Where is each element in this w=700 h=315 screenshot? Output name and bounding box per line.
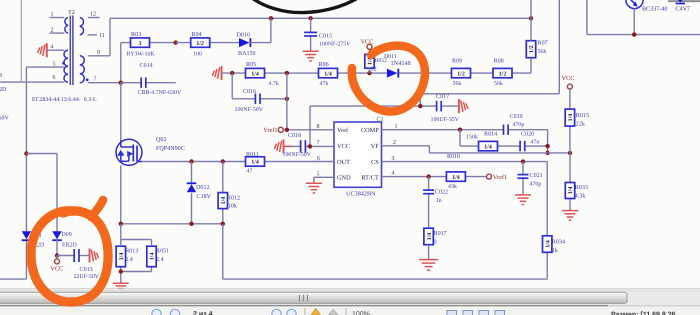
wire pin5 xyxy=(26,66,64,68)
wire D012 column xyxy=(191,162,193,224)
svg-text:Размер: [11,69 8,26: Размер: [11,69 8,26 xyxy=(611,311,676,315)
svg-text:Vref: Vref xyxy=(337,127,349,134)
svg-text:R06: R06 xyxy=(319,61,329,68)
ground C015 xyxy=(303,51,319,61)
svg-text:1/4: 1/4 xyxy=(568,187,574,195)
svg-text:R011: R011 xyxy=(246,151,259,158)
svg-text:150k: 150k xyxy=(466,133,478,140)
svg-text:56k: 56k xyxy=(494,80,503,87)
resistor R09 xyxy=(452,57,471,86)
wire R012 column xyxy=(222,162,224,224)
svg-text:C18V: C18V xyxy=(197,193,212,200)
ground C021 xyxy=(515,195,531,205)
svg-text:Vref1: Vref1 xyxy=(493,174,507,181)
capacitor C021 xyxy=(518,172,543,188)
svg-text:FQP4N90C: FQP4N90C xyxy=(156,145,185,152)
svg-text:470p: 470p xyxy=(513,122,525,128)
wire D08 column xyxy=(0,67,26,279)
wire cut gray xyxy=(668,0,700,2)
svg-text:COMP: COMP xyxy=(361,127,379,134)
svg-text:1/4: 1/4 xyxy=(545,240,551,248)
resistor R012 xyxy=(218,193,240,210)
wire C013 row xyxy=(57,255,89,257)
svg-text:100UF-35V: 100UF-35V xyxy=(431,117,460,123)
svg-text:VF: VF xyxy=(371,143,380,150)
node C016-right xyxy=(285,97,289,101)
capacitor C014 xyxy=(138,62,182,96)
svg-text:1/4: 1/4 xyxy=(484,144,492,150)
ground pin5 xyxy=(306,183,322,193)
wire riser pin9 to top rail xyxy=(109,18,111,56)
wire VCC feed from top xyxy=(420,0,559,106)
pin 2 xyxy=(393,140,396,146)
svg-text:1N4148: 1N4148 xyxy=(391,60,411,67)
ground C017 (earth) xyxy=(459,99,468,113)
wire pin2 stub xyxy=(50,32,65,34)
svg-text:R09: R09 xyxy=(452,57,462,64)
wire pin12 stub xyxy=(88,17,100,19)
svg-text:CS: CS xyxy=(371,159,379,166)
svg-text:R014: R014 xyxy=(484,131,497,138)
svg-text:OUT: OUT xyxy=(337,159,350,166)
wire C014 row xyxy=(121,82,176,84)
pin 1 xyxy=(395,124,398,130)
diode C4V7 (cut) xyxy=(676,0,691,12)
wire pin4 row xyxy=(382,176,487,178)
wire R08 to R07 xyxy=(530,58,532,73)
svg-text:100NF-50V: 100NF-50V xyxy=(283,152,312,158)
svg-text:3: 3 xyxy=(139,41,142,47)
svg-text:EC2834-44:13:6:44- 0.3-L: EC2834-44:13:6:44- 0.3-L xyxy=(32,97,97,103)
label C1 xyxy=(377,117,384,123)
node rail-R012 xyxy=(221,222,225,226)
svg-text:R033: R033 xyxy=(575,184,588,191)
svg-text:7: 7 xyxy=(94,77,97,83)
svg-text:100%: 100% xyxy=(352,311,370,315)
svg-text:4.7k: 4.7k xyxy=(269,80,279,87)
wire top rail xyxy=(110,17,531,19)
capacitor C020 xyxy=(520,131,539,152)
power VCC (output) xyxy=(51,256,64,273)
svg-text:R013: R013 xyxy=(125,247,138,254)
svg-text:1/4: 1/4 xyxy=(568,114,574,122)
resistor R052 xyxy=(365,54,387,72)
svg-text:1/2: 1/2 xyxy=(529,45,535,53)
svg-text:7: 7 xyxy=(317,140,320,146)
node rail-R07 xyxy=(529,16,533,20)
wire C015 column xyxy=(310,18,312,51)
node mid-C016 xyxy=(230,71,234,75)
svg-text:50V: 50V xyxy=(0,115,10,121)
annotation orange circle (D011) xyxy=(352,46,425,112)
node pin7-VCC xyxy=(308,144,312,148)
resistor R051 xyxy=(147,246,169,267)
wire BC337 emitter xyxy=(633,9,635,35)
wire C016 branch xyxy=(232,73,287,99)
wire R04 row xyxy=(176,42,239,44)
pin 5 xyxy=(317,172,320,178)
label cut 50V xyxy=(0,115,10,121)
svg-text:CBB-4.7NF-630V: CBB-4.7NF-630V xyxy=(138,90,182,96)
svg-text:C018: C018 xyxy=(288,132,301,139)
svg-text:C019: C019 xyxy=(510,113,523,120)
svg-text:VCC: VCC xyxy=(562,75,575,82)
svg-text:2 из 4: 2 из 4 xyxy=(193,311,213,315)
resistor R015 xyxy=(565,109,589,128)
diode D08 xyxy=(22,231,45,248)
svg-text:0: 0 xyxy=(434,238,437,245)
svg-text:R07: R07 xyxy=(538,40,548,47)
svg-text:D012: D012 xyxy=(196,184,210,191)
wire R033 column xyxy=(569,153,571,210)
svg-text:1/4: 1/4 xyxy=(119,253,125,261)
svg-text:22UF-50V: 22UF-50V xyxy=(74,274,100,280)
wire R015 column xyxy=(569,89,571,153)
ground R033 xyxy=(562,211,578,221)
wire pin11 stub xyxy=(88,34,97,36)
resistor R017 xyxy=(424,228,447,245)
node VCC-C013 xyxy=(55,253,59,257)
svg-text:ER2D: ER2D xyxy=(62,243,77,249)
label Q02 xyxy=(156,136,185,152)
svg-text:BC337-40: BC337-40 xyxy=(642,5,667,12)
svg-text:R051: R051 xyxy=(156,247,169,254)
svg-text:1/4: 1/4 xyxy=(452,175,460,181)
svg-text:GND: GND xyxy=(337,175,351,182)
svg-text:100NF-50V: 100NF-50V xyxy=(235,107,264,113)
svg-text:4: 4 xyxy=(392,171,395,177)
svg-text:C016: C016 xyxy=(243,88,256,95)
node CS-C021 xyxy=(521,159,525,163)
wire sense drop xyxy=(222,224,224,279)
svg-text:47k: 47k xyxy=(320,80,329,87)
label cut 3 xyxy=(0,73,2,79)
ground pin4 (earth) xyxy=(38,43,47,57)
wire source xyxy=(120,165,122,224)
capacitor C019 xyxy=(504,113,525,135)
svg-text:R016: R016 xyxy=(447,153,460,160)
resistor R05 xyxy=(246,61,279,87)
svg-text:56k: 56k xyxy=(538,48,547,55)
wire D09 to VCC xyxy=(56,240,58,256)
resistor R07 xyxy=(526,40,547,58)
svg-text:1/4: 1/4 xyxy=(150,253,156,261)
node VF join xyxy=(545,151,549,155)
svg-text:6: 6 xyxy=(53,75,56,81)
resistor R034 xyxy=(543,236,566,254)
pin 7 xyxy=(317,140,320,146)
svg-text:43k: 43k xyxy=(448,183,457,190)
node rail-C015 xyxy=(308,16,312,20)
wire R07 top xyxy=(530,18,532,40)
pin 4 xyxy=(392,171,395,177)
node divider tap xyxy=(568,151,572,155)
wire pin7 row xyxy=(292,145,335,147)
wire D010 to rail xyxy=(250,18,271,42)
transistor Q02 xyxy=(116,139,142,165)
resistor R03 xyxy=(127,31,156,58)
capacitor C018 xyxy=(283,132,312,158)
node R013 bottom xyxy=(119,269,123,273)
node source xyxy=(119,222,123,226)
pin 6 xyxy=(317,156,320,162)
capacitor C016 xyxy=(235,88,264,113)
node Vref1 (RT/CT) xyxy=(487,174,508,181)
svg-text:56k: 56k xyxy=(453,80,462,87)
node rail-D012 xyxy=(189,222,193,226)
svg-text:C1: C1 xyxy=(377,117,384,123)
svg-text:R017: R017 xyxy=(434,230,447,237)
wire pin6 xyxy=(0,81,64,83)
wire pin1 row xyxy=(382,129,548,131)
resistor R033 xyxy=(565,183,588,200)
svg-text:C4V7: C4V7 xyxy=(676,5,691,12)
svg-text:2.4: 2.4 xyxy=(125,256,133,263)
resistor R013 xyxy=(116,246,138,267)
svg-text:1/2: 1/2 xyxy=(196,41,204,47)
wire R013 net xyxy=(121,224,152,283)
svg-text:C014: C014 xyxy=(140,62,153,69)
resistor R011 xyxy=(246,151,265,175)
svg-text:1k: 1k xyxy=(552,247,559,254)
node C017 xyxy=(418,104,422,108)
wire C018 red lead xyxy=(284,145,292,147)
wire R03 left riser xyxy=(120,43,122,83)
wire pin8 xyxy=(284,129,335,131)
svg-text:47n: 47n xyxy=(531,140,540,146)
svg-text:10k: 10k xyxy=(228,203,238,210)
node mid-Vref-riser xyxy=(285,71,289,75)
wire source rail xyxy=(121,223,223,225)
wire R03 row xyxy=(121,42,176,44)
node Vref-junction xyxy=(285,128,289,132)
resistor R08 xyxy=(493,57,512,86)
svg-text:R052: R052 xyxy=(375,58,387,64)
svg-text:R04: R04 xyxy=(192,31,202,38)
svg-text:Q02: Q02 xyxy=(156,136,167,143)
svg-text:RT/CT: RT/CT xyxy=(361,175,379,182)
wire VCC riser to pin7 xyxy=(309,106,311,146)
svg-text:100: 100 xyxy=(193,52,202,58)
wire C021 column xyxy=(522,162,524,195)
resistor R06 xyxy=(319,61,338,87)
label cut 2D xyxy=(0,87,7,93)
svg-text:1n: 1n xyxy=(436,198,442,204)
wire R017 bottom xyxy=(428,245,430,259)
svg-text:47: 47 xyxy=(247,169,253,175)
svg-text:1/2: 1/2 xyxy=(499,71,507,77)
svg-text:C021: C021 xyxy=(530,172,543,179)
resistor R016 xyxy=(446,153,465,190)
transformer T2 xyxy=(51,9,105,85)
diode D012 zener xyxy=(187,183,212,200)
power VCC (R052) xyxy=(361,38,374,49)
transistor BC337 xyxy=(626,0,668,12)
transformer label xyxy=(32,97,97,103)
node pin7-C014 xyxy=(119,81,123,85)
wire C017 row xyxy=(310,105,458,107)
svg-text:Vref1: Vref1 xyxy=(263,127,277,134)
node gate-D012 xyxy=(189,159,193,163)
svg-text:R034: R034 xyxy=(552,239,565,246)
node mid-R052 xyxy=(367,71,371,75)
svg-text:C022: C022 xyxy=(435,188,448,195)
ground mid-line left (earth) xyxy=(212,66,221,80)
svg-text:VCC: VCC xyxy=(337,143,350,150)
wire D09 branch xyxy=(26,154,57,232)
wire pin1 stub xyxy=(50,17,65,19)
wire Vref riser xyxy=(286,73,288,130)
svg-text:R03: R03 xyxy=(131,31,141,38)
wire C019-C020 join xyxy=(547,130,549,153)
capacitor C015 xyxy=(304,32,351,47)
svg-text:1/4: 1/4 xyxy=(427,233,433,241)
svg-text:VCC: VCC xyxy=(361,38,374,45)
wire pin2 VF xyxy=(382,146,571,153)
wire bottom run xyxy=(223,278,547,280)
pin 8 xyxy=(317,124,320,130)
diode D011 xyxy=(384,54,411,78)
svg-text:R015: R015 xyxy=(576,112,589,119)
svg-text:1/2: 1/2 xyxy=(457,71,465,77)
wire R014 branch xyxy=(460,130,548,146)
node pin5-branch xyxy=(24,151,28,155)
svg-text:1/4: 1/4 xyxy=(324,71,332,77)
svg-text:R08: R08 xyxy=(494,57,504,64)
svg-text:11: 11 xyxy=(99,33,105,39)
svg-text:3: 3 xyxy=(0,73,2,79)
svg-text:22k: 22k xyxy=(576,121,586,128)
svg-text:R05: R05 xyxy=(246,61,256,68)
wire pin6 row xyxy=(142,161,334,163)
node emitter-rail xyxy=(632,32,636,36)
wire R052 top xyxy=(369,49,371,73)
node rail-D010 xyxy=(269,16,273,20)
node R03-R04-C014 xyxy=(174,40,178,44)
wire rail up offscreen xyxy=(530,0,532,18)
capacitor C013 xyxy=(74,249,100,280)
svg-text:12: 12 xyxy=(90,11,96,17)
svg-text:BA159: BA159 xyxy=(238,50,256,57)
op-amp U1 UC3842BN xyxy=(334,122,382,198)
node pin4-C022 xyxy=(426,174,430,178)
svg-text:2.4: 2.4 xyxy=(156,256,164,263)
wire pin9 xyxy=(88,55,110,57)
svg-text:T2: T2 xyxy=(68,9,75,16)
node C020 join xyxy=(545,144,549,148)
diode D09 xyxy=(52,231,77,248)
svg-text:C020: C020 xyxy=(521,131,534,138)
node gate-R012 xyxy=(221,159,225,163)
svg-text:VCC: VCC xyxy=(51,266,64,273)
annotation orange circle (D09/C013) xyxy=(31,200,108,302)
svg-text:100NF-275V: 100NF-275V xyxy=(319,41,351,47)
svg-text:4.3k: 4.3k xyxy=(575,193,587,200)
ground C018 (earth) xyxy=(274,139,283,153)
wire BC337 frame xyxy=(587,0,700,35)
svg-text:22: 22 xyxy=(371,67,377,73)
svg-text:C015: C015 xyxy=(319,33,332,40)
resistor R014 xyxy=(466,131,498,151)
ground R013 xyxy=(113,283,129,288)
wire pin5 xyxy=(314,177,334,183)
wire pin7 xyxy=(88,82,121,84)
wire from offscreen top-left xyxy=(20,0,22,82)
svg-text:D09: D09 xyxy=(62,232,72,238)
capacitor C017 xyxy=(431,93,460,123)
svg-text:UC3842BN: UC3842BN xyxy=(346,191,376,198)
svg-text:R012: R012 xyxy=(227,195,240,202)
pin 3 xyxy=(392,156,395,162)
svg-text:D010: D010 xyxy=(237,31,251,38)
resistor R04 xyxy=(191,31,210,58)
svg-text:470p: 470p xyxy=(530,181,542,187)
annotation black curve xyxy=(251,0,361,13)
svg-text:RY3W-10K: RY3W-10K xyxy=(127,52,156,58)
wire pin3 CS xyxy=(382,161,548,163)
svg-text:1/4: 1/4 xyxy=(251,160,259,166)
svg-text:1/4: 1/4 xyxy=(251,71,259,77)
wire drain xyxy=(120,83,122,141)
scrollbar xyxy=(0,289,700,306)
ground C013 (earth) xyxy=(90,249,99,263)
svg-text:C013: C013 xyxy=(80,266,93,273)
svg-text:C017: C017 xyxy=(436,93,449,100)
power VCC (R015) xyxy=(562,75,575,89)
wire mid line xyxy=(222,72,532,74)
diode D010 xyxy=(237,31,256,57)
node Vref1 xyxy=(263,127,283,134)
ground R017 xyxy=(419,260,438,271)
node pin1-R014 xyxy=(458,128,462,132)
wire pin4 xyxy=(47,49,65,51)
svg-text:2D: 2D xyxy=(0,87,7,93)
status bar xyxy=(0,306,700,315)
wire R034 column xyxy=(546,162,548,280)
capacitor C022 xyxy=(423,188,448,203)
wire C022 column xyxy=(428,177,430,229)
